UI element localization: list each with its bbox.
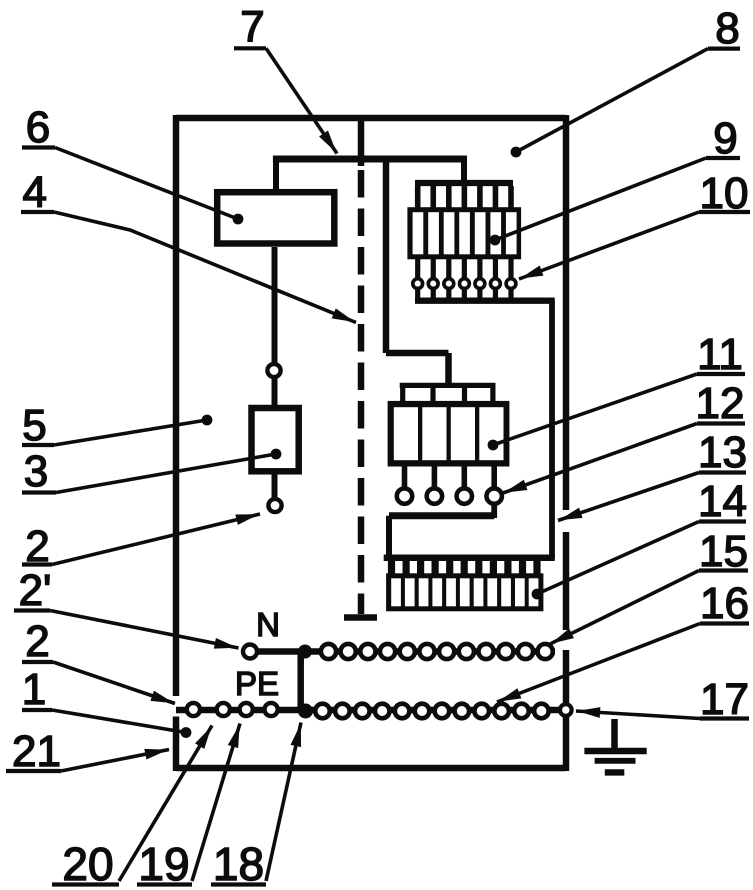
svg-text:5: 5 bbox=[22, 401, 46, 450]
svg-text:19: 19 bbox=[138, 838, 189, 890]
svg-text:16: 16 bbox=[700, 579, 749, 628]
svg-text:N: N bbox=[256, 606, 280, 643]
fuse block 9: stems to terminals bbox=[418, 259, 511, 278]
svg-text:12: 12 bbox=[696, 379, 745, 428]
svg-text:20: 20 bbox=[62, 838, 113, 890]
PE bus line bbox=[176, 707, 566, 714]
N bus line bbox=[250, 648, 555, 655]
breaker block 11: top comb bar bbox=[400, 383, 496, 388]
dashed partition line, item 4 bbox=[358, 116, 365, 166]
wire: terminal 2' to apparatus 3 bbox=[272, 378, 278, 406]
wire: apparatus 3 to terminal 2 bbox=[272, 474, 278, 498]
fuse block 9: top bus bbox=[415, 180, 513, 186]
fuse block 9: stems below terminals bbox=[418, 289, 511, 301]
partition foot bar bbox=[344, 614, 377, 621]
fuse block 9: pins top bbox=[418, 186, 511, 208]
wire: branch down to breaker block 11 bbox=[383, 159, 390, 353]
wire: 4th terminal down to N link bbox=[491, 504, 497, 518]
terminal 2 (small circle) bbox=[268, 499, 281, 512]
comb strip 14: teeth bbox=[392, 560, 538, 575]
fuse block 9: output bus bbox=[415, 298, 555, 304]
breaker block 11: output terminals (circles, item 12) bbox=[397, 488, 502, 503]
svg-text:PE: PE bbox=[235, 665, 279, 702]
N bus first terminal circle bbox=[243, 645, 257, 659]
svg-text:9: 9 bbox=[713, 114, 737, 163]
svg-text:7: 7 bbox=[240, 3, 264, 52]
PE end terminal on cabinet wall (item 17) bbox=[560, 704, 572, 716]
svg-text:21: 21 bbox=[12, 727, 61, 776]
PE bus terminal chain (item 16) bbox=[315, 704, 549, 719]
svg-text:3: 3 bbox=[24, 447, 48, 496]
comb strip 14: body bbox=[386, 573, 543, 611]
svg-text:18: 18 bbox=[213, 838, 264, 890]
fuse block 9: body bbox=[407, 207, 521, 259]
wire: box 6 to terminal 2' bbox=[272, 247, 278, 363]
svg-text:11: 11 bbox=[697, 330, 743, 379]
bus above comb 14 bbox=[384, 554, 555, 561]
wire: drop to box 6 bbox=[273, 159, 279, 190]
terminal 2' (small circle) bbox=[267, 364, 280, 377]
PE bus left terminals bbox=[187, 703, 200, 716]
box 6: meter bbox=[217, 192, 334, 243]
N bus terminal chain (item 15) bbox=[321, 644, 553, 659]
box 3: apparatus bbox=[252, 408, 299, 471]
wire: drop to fuse block 9 bus bbox=[461, 159, 467, 182]
breaker block 11: stems to terminals bbox=[405, 466, 495, 487]
wire: N link step horizontal bbox=[389, 512, 494, 519]
N bus junction dot bbox=[298, 645, 312, 659]
wire: N junction to PE junction bbox=[297, 652, 304, 713]
svg-text:8: 8 bbox=[715, 4, 739, 53]
wire 13: vertical riser on right bbox=[549, 301, 555, 558]
earth/ground symbol bbox=[584, 719, 646, 772]
svg-text:4: 4 bbox=[23, 168, 47, 217]
svg-text:1: 1 bbox=[22, 665, 46, 714]
svg-text:6: 6 bbox=[26, 103, 50, 152]
svg-text:14: 14 bbox=[698, 477, 747, 526]
svg-text:13: 13 bbox=[698, 428, 747, 477]
wire: N link step vertical bbox=[386, 516, 392, 558]
breaker block 11: top comb verticals bbox=[403, 388, 493, 402]
fuse block 9: output terminals (circles, item 10) bbox=[413, 279, 516, 289]
svg-text:2': 2' bbox=[19, 566, 52, 615]
cabinet enclosure (panel housing, item 8/21) bbox=[176, 115, 566, 122]
svg-text:2: 2 bbox=[25, 617, 49, 666]
wire 7: feeder from box 6 to fuse block bbox=[273, 156, 467, 163]
PE bus junction dot (item 18) bbox=[298, 704, 313, 719]
breaker block 11: body bbox=[388, 401, 510, 467]
